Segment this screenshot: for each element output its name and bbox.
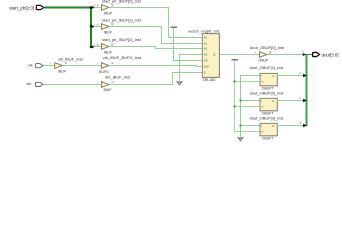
- svg-text:din_IBUF_inst: din_IBUF_inst: [105, 75, 131, 80]
- wire T row1: [235, 81, 261, 83]
- wire I row3: [241, 125, 261, 127]
- ground gnd1: [177, 81, 182, 85]
- svg-text:OBUFT: OBUFT: [262, 137, 275, 141]
- node bus tap 1:1: [90, 25, 92, 27]
- wire A3 to gnd1: [180, 55, 203, 83]
- svg-text:O: O: [272, 74, 274, 78]
- wire IBUF0 out to A0: [109, 8, 202, 38]
- wire tap0 stub: [94, 7, 101, 9]
- svg-text:IBUF: IBUF: [104, 88, 112, 92]
- node bus tap 0:0: [90, 6, 92, 8]
- svg-text:BUFG: BUFG: [99, 70, 109, 74]
- wire IBUF2 out to A2: [109, 47, 202, 49]
- svg-text:O: O: [272, 124, 274, 128]
- svg-text:O: O: [112, 22, 114, 26]
- svg-text:clk_IBUF_BUFG_inst: clk_IBUF_BUFG_inst: [103, 55, 142, 60]
- wire junction to port: [306, 54, 312, 56]
- input port start_ptr[2:0]: [36, 5, 43, 9]
- svg-text:O: O: [112, 3, 114, 7]
- wire start_ptr bus vertical: [90, 7, 92, 48]
- svg-text:IBUF: IBUF: [58, 70, 66, 74]
- svg-text:start_ptr_IBUF[0]_inst: start_ptr_IBUF[0]_inst: [102, 0, 142, 3]
- svg-text:O: O: [272, 99, 274, 103]
- node I junction row3: [240, 125, 242, 127]
- input port clk: [36, 64, 43, 68]
- wire OBUF0 out to junction: [267, 54, 303, 56]
- svg-text:O: O: [112, 61, 114, 65]
- wire T row2: [235, 106, 261, 108]
- wire I row2: [241, 100, 261, 102]
- wire IBUF1 out to A1: [109, 27, 202, 44]
- input port din: [36, 82, 43, 86]
- svg-text:clk: clk: [28, 63, 33, 67]
- wire vcc1 to CE: [174, 28, 203, 61]
- svg-text:A0: A0: [204, 36, 208, 40]
- wire OBUFT1 out: [277, 75, 303, 77]
- svg-text:A3: A3: [204, 53, 208, 57]
- svg-text:CLK: CLK: [204, 65, 209, 69]
- power vcc1: [171, 27, 178, 29]
- svg-text:dout[3:0]: dout[3:0]: [322, 53, 339, 58]
- svg-text:din: din: [26, 82, 31, 86]
- svg-text:IBUF: IBUF: [104, 50, 112, 54]
- svg-text:vector_reg[0]_srl1: vector_reg[0]_srl1: [188, 28, 221, 33]
- svg-text:SRL16E: SRL16E: [203, 78, 217, 82]
- wire din port to IBUF: [43, 84, 101, 86]
- svg-text:start_ptr_IBUF[1]_inst: start_ptr_IBUF[1]_inst: [102, 18, 142, 23]
- svg-text:CE: CE: [204, 59, 208, 63]
- output port dout[3:0]: [313, 52, 320, 56]
- wire clk port to IBUF: [43, 65, 55, 67]
- svg-text:start_ptr[2:0]: start_ptr[2:0]: [9, 5, 34, 10]
- wire tap1 stub: [94, 26, 101, 28]
- svg-text:IBUF: IBUF: [104, 31, 112, 35]
- svg-text:start_ptr_IBUF[2]_inst: start_ptr_IBUF[2]_inst: [102, 37, 142, 42]
- wire din IBUF out to D pin: [109, 73, 202, 85]
- wire OBUFT3 out: [277, 125, 303, 127]
- svg-text:A1: A1: [204, 42, 208, 46]
- svg-text:O: O: [269, 50, 271, 54]
- wire vcc2 T net vertical: [235, 61, 261, 132]
- wire clk IBUF to BUFG: [63, 65, 102, 67]
- node I junction row2: [240, 100, 242, 102]
- wire tap2 stub: [94, 46, 101, 48]
- svg-text:dout_OBUF[3]_inst: dout_OBUF[3]_inst: [250, 116, 285, 121]
- svg-text:OBUF: OBUF: [259, 59, 269, 63]
- wire gnd2 I net: [241, 76, 261, 139]
- wire Q out: [219, 54, 259, 56]
- power vcc2: [231, 59, 238, 61]
- svg-text:O: O: [112, 42, 114, 46]
- svg-text:Q: Q: [213, 53, 215, 57]
- svg-text:O: O: [65, 61, 67, 65]
- svg-text:IBUF: IBUF: [104, 11, 112, 15]
- node T junction row1: [234, 81, 236, 83]
- svg-text:dout_OBUF[1]_inst: dout_OBUF[1]_inst: [250, 65, 285, 70]
- ground gnd2: [238, 137, 243, 141]
- wire BUFG out to CLK pin: [109, 66, 202, 67]
- node T junction row2: [234, 106, 236, 108]
- node bus tap 2:2: [91, 45, 95, 48]
- svg-text:A2: A2: [204, 47, 208, 51]
- svg-text:D: D: [204, 71, 206, 75]
- wire start_ptr bus horizontal: [44, 7, 92, 9]
- svg-text:clk_IBUF_inst: clk_IBUF_inst: [58, 57, 84, 62]
- wire dout bus vertical: [306, 54, 308, 126]
- svg-text:O: O: [112, 80, 114, 84]
- svg-text:dout_OBUF[0]_inst: dout_OBUF[0]_inst: [250, 45, 285, 50]
- wire OBUFT2 out: [277, 100, 303, 102]
- svg-text:dout_OBUF[2]_inst: dout_OBUF[2]_inst: [250, 91, 285, 96]
